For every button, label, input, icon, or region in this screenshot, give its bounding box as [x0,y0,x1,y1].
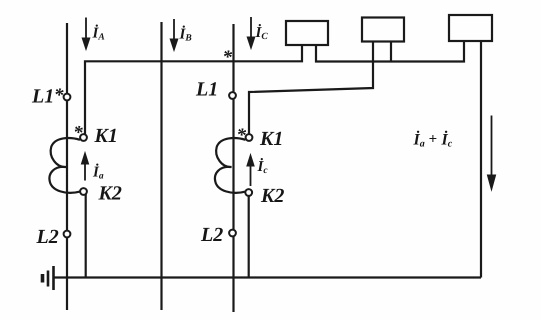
svg-text:*: * [237,125,247,146]
svg-text:İC: İC [255,23,269,42]
instrument P2 [362,18,404,42]
wire K2A lead [85,192,87,278]
svg-text:L2: L2 [36,226,59,248]
svg-text:*: * [54,85,64,106]
terminal L2 of T1 [64,231,71,238]
svg-text:*: * [223,47,233,68]
svg-text:K2: K2 [98,183,122,205]
terminal L1 of T2 [229,92,236,99]
terminal L1 of T1 [64,94,71,101]
svg-text:K1: K1 [94,125,118,147]
phase A bus [66,23,68,310]
phase C bus [232,24,234,312]
svg-text:L1: L1 [31,86,54,108]
arrow current Ic in T2 secondary [247,155,254,187]
svg-text:L2: L2 [200,224,223,246]
svg-text:K2: K2 [260,185,284,207]
phase B bus [160,22,162,310]
svg-text:İc: İc [441,131,453,150]
wire K1A to instrument P1 [85,45,302,138]
terminal K2 of T2 [245,189,252,196]
svg-text:İA: İA [92,24,105,43]
svg-text:*: * [73,122,83,143]
svg-text:K1: K1 [259,128,283,150]
wire P3 return (right vertical) [480,41,482,278]
svg-text:İa: İa [92,163,104,182]
ground [43,266,54,290]
svg-text:İa: İa [413,131,425,150]
instrument P3 [449,15,492,41]
instrument P1 [286,21,328,45]
terminal K1 of T1 [80,134,87,141]
wire bottom common return [54,276,482,278]
arrow current IA [82,18,90,50]
terminal L2 of T2 [229,230,236,237]
arrow current IC [247,17,255,49]
svg-text:L1: L1 [195,79,218,101]
arrow current IB [170,19,178,51]
wire P2 output [390,42,392,62]
terminal K2 of T1 [80,188,87,195]
terminal K1 of T2 [246,134,253,141]
svg-text:İB: İB [179,25,192,44]
transformer T1 secondary coil [49,138,80,193]
wire K1C to instrument P2 [249,42,373,138]
wire P1 to P3 [316,41,464,62]
transformer T2 secondary coil [215,138,246,193]
svg-text:İc: İc [257,157,269,176]
svg-text:+: + [429,132,438,148]
arrow current Ia+Ic (right return) [487,116,495,191]
wire K2C lead [248,193,250,278]
arrow current Ia in T1 secondary [81,153,88,181]
